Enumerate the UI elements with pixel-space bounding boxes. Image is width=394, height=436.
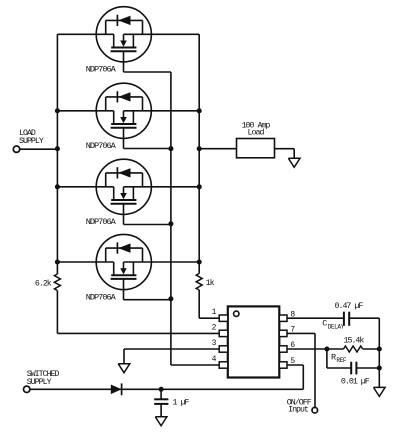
svg-text:Load: Load: [248, 128, 265, 138]
svg-text:15.4k: 15.4k: [344, 335, 365, 345]
svg-text:1k: 1k: [206, 278, 215, 288]
svg-text:2: 2: [212, 323, 217, 332]
svg-text:1 µF: 1 µF: [173, 399, 190, 408]
svg-text:NDP706A: NDP706A: [86, 141, 117, 151]
svg-text:0.01 µF: 0.01 µF: [341, 377, 370, 386]
svg-text:1: 1: [212, 308, 217, 317]
svg-text:NDP706A: NDP706A: [86, 292, 117, 302]
svg-text:4: 4: [212, 355, 217, 364]
svg-text:NDP706A: NDP706A: [86, 65, 117, 75]
svg-text:DELAY: DELAY: [328, 323, 345, 330]
svg-text:REF: REF: [336, 357, 347, 364]
svg-text:Input: Input: [288, 405, 309, 414]
svg-text:NDP706A: NDP706A: [86, 217, 117, 227]
svg-text:SUPPLY: SUPPLY: [19, 137, 44, 146]
svg-text:6.2k: 6.2k: [35, 278, 52, 288]
svg-text:0.47 µF: 0.47 µF: [335, 302, 364, 311]
svg-text:R: R: [331, 352, 336, 362]
svg-text:3: 3: [212, 339, 217, 348]
svg-text:SUPPLY: SUPPLY: [27, 378, 52, 387]
